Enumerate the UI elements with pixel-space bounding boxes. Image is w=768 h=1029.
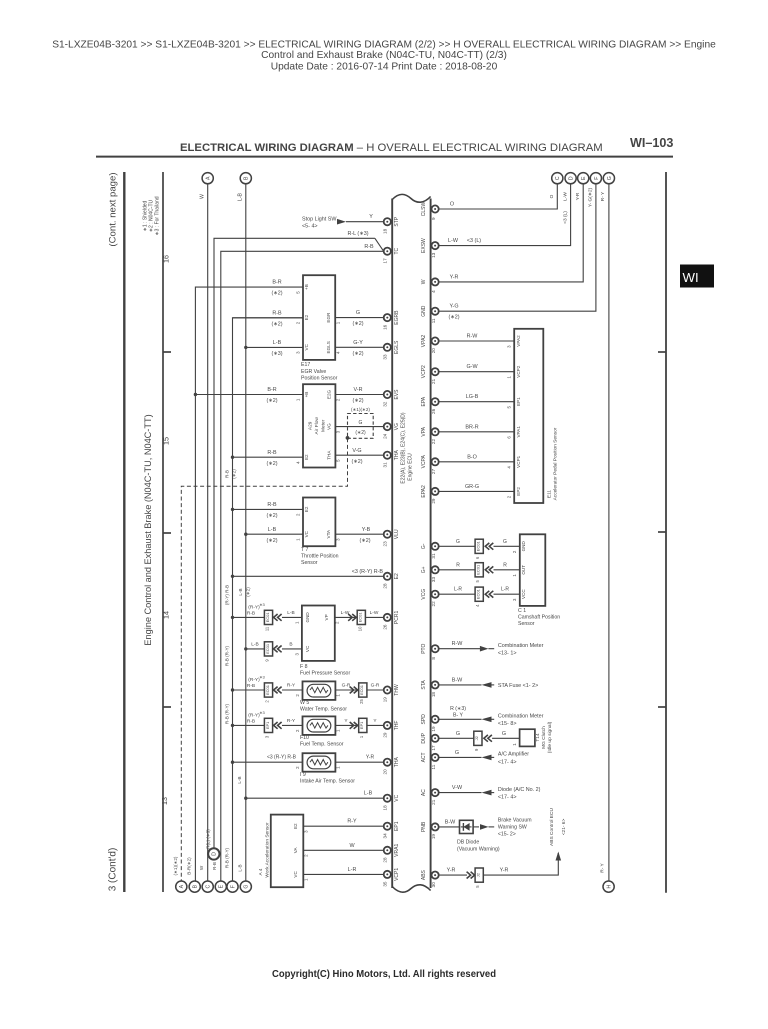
shield chevrons F10 left [274, 722, 282, 729]
section tick 15/14 [163, 532, 171, 534]
svg-text:R-B: R-B [272, 310, 282, 316]
ECU pin THW 19 (left) [383, 684, 400, 702]
svg-text:R-W: R-W [467, 334, 479, 340]
connector H bottom right [603, 881, 614, 892]
svg-text:(∗2): (∗2) [266, 461, 277, 467]
svg-text:20: 20 [431, 348, 436, 354]
svg-text:E2: E2 [304, 506, 309, 512]
svg-text:E17: E17 [301, 362, 310, 368]
svg-text:9: 9 [431, 217, 436, 220]
connector G bottom [240, 881, 251, 892]
svg-text:Sensor: Sensor [301, 560, 318, 566]
svg-text:(∗2): (∗2) [266, 538, 277, 544]
svg-text:EGR: EGR [326, 312, 331, 323]
svg-text:STP: STP [394, 216, 400, 226]
svg-text:Combination Meter: Combination Meter [498, 714, 544, 720]
wire W label bottom [199, 865, 204, 870]
wire R-B to F10 EP1 [231, 724, 265, 727]
wire B-R to A29 label [266, 387, 277, 404]
svg-text:G+: G+ [421, 566, 427, 573]
E11 pin VPA1 [506, 426, 521, 439]
connector C bottom [202, 881, 213, 892]
junction EC01 6 (C1) [475, 539, 483, 559]
svg-text:Control and Exhaust Brake (N04: Control and Exhaust Brake (N04C-TU, N04C… [261, 50, 507, 61]
svg-text:L-B: L-B [251, 641, 258, 647]
svg-text:R (∗3): R (∗3) [450, 706, 466, 712]
ECU pin THA 20 (left) [383, 757, 400, 775]
wire Y-R (W to E) [439, 184, 583, 282]
DB Diode box [460, 820, 474, 833]
svg-text:G: G [456, 539, 460, 545]
Combination Meter label 1 [498, 643, 544, 657]
svg-text:Throttle Position: Throttle Position [301, 554, 339, 560]
svg-text:Meter: Meter [321, 419, 327, 432]
svg-text:VCPA: VCPA [421, 455, 427, 469]
ECU pin G- 31 (right) [421, 543, 439, 559]
svg-text:S1-LXZE04B-3201 >> S1-LXZE04B-: S1-LXZE04B-3201 >> S1-LXZE04B-3201 >> EL… [52, 40, 716, 51]
svg-text:(∗2): (∗2) [448, 315, 459, 321]
wire B-O label [467, 454, 477, 460]
ECU pin VRA1 28 (left) [383, 844, 400, 863]
connector B [240, 173, 251, 184]
svg-text:VP: VP [324, 614, 329, 620]
svg-text:10: 10 [357, 626, 362, 631]
svg-text:13: 13 [431, 252, 436, 258]
svg-text:EPA2: EPA2 [421, 485, 427, 498]
svg-text:G: G [502, 731, 506, 737]
wire L-W label vert [562, 192, 568, 201]
copyright [272, 968, 496, 980]
svg-text:PNB: PNB [421, 821, 427, 832]
connector A bottom [176, 881, 187, 892]
svg-text:VPA1: VPA1 [516, 426, 521, 438]
ECU pin EXSW 13 (right) [421, 238, 439, 258]
wire L-R to C1 VCC [494, 593, 520, 595]
svg-text:E2: E2 [304, 454, 309, 460]
svg-text:WI: WI [683, 270, 699, 285]
svg-text:R-B: R-B [247, 719, 255, 725]
wire V-G label [351, 448, 362, 465]
ABS Control ECU label [549, 808, 567, 846]
section label 16 [162, 255, 171, 263]
svg-text:Fuel Temp. Sensor: Fuel Temp. Sensor [300, 742, 344, 748]
svg-text:BR-R: BR-R [465, 424, 478, 430]
junction EP1 1 (F10) [359, 718, 367, 738]
A4 pin VC [293, 871, 309, 881]
wire B-Y from SPD label [450, 706, 466, 718]
ECU pin TC 17 (left) [383, 247, 400, 263]
Brake Vacuum label [498, 818, 532, 838]
wire R-B label [364, 244, 374, 250]
svg-text:Camshaft Position: Camshaft Position [518, 615, 560, 621]
svg-text:3 (Cont'd): 3 (Cont'd) [108, 848, 119, 892]
svg-text:C: C [206, 884, 212, 888]
svg-text:30: 30 [431, 882, 436, 888]
svg-text:G-: G- [421, 543, 427, 549]
svg-text:L-B: L-B [237, 776, 242, 783]
wire R-B label bottom [212, 862, 217, 870]
svg-text:T14: T14 [535, 733, 541, 742]
shield box label [351, 407, 370, 412]
E11 pin VCP2 [506, 365, 521, 378]
svg-text:E2: E2 [304, 314, 309, 320]
wire L-B to VC [244, 797, 383, 800]
E17 pin +B [295, 284, 309, 294]
svg-text:B-O: B-O [467, 454, 477, 460]
svg-text:<3 (R-Y) R-B: <3 (R-Y) R-B [267, 755, 297, 761]
I9 Intake Air Temp Sensor label [300, 772, 355, 785]
wire R-Y to F10 label [287, 718, 296, 724]
connector D top right [565, 173, 576, 184]
wire R-W from PTO label [452, 641, 464, 647]
ECU pin THF 29 (left) [383, 721, 400, 738]
svg-text:VPA: VPA [421, 426, 427, 436]
junction EC01 2 (W5) [264, 683, 272, 703]
T7 pin E2 [295, 506, 309, 516]
A29 Air Flow Meter box [303, 384, 335, 467]
wire Y-R to ABS label [500, 868, 509, 874]
svg-text:VCP1: VCP1 [394, 868, 400, 881]
junction EC01 10 [357, 610, 365, 631]
wire R-Y to EP1 [303, 825, 383, 827]
svg-text:Accelerator Pedal Position Sen: Accelerator Pedal Position Sensor [553, 427, 559, 500]
wire O label [450, 202, 454, 208]
svg-text:Y-R: Y-R [575, 192, 581, 200]
connector E bottom [215, 881, 226, 892]
svg-text:EC01: EC01 [265, 643, 270, 654]
E17 EGR Valve Position Sensor box [303, 275, 335, 360]
arrow to Brake Vacuum SW [480, 824, 494, 830]
wire BR-R to E11 VPA1 [439, 431, 514, 433]
wire Y-R to ABS Control ECU [483, 853, 558, 875]
T14 MG Clutch pin [512, 743, 517, 746]
A29 pin +B [295, 392, 309, 402]
wire L-R to VCP1 [303, 873, 383, 875]
svg-text:A: A [179, 884, 185, 888]
svg-text:G-W: G-W [466, 364, 478, 370]
svg-text:G: G [607, 176, 613, 180]
svg-text:(Vacuum Warning): (Vacuum Warning) [457, 847, 500, 853]
svg-text:E22(A), E23(B), E24(C), E25(D): E22(A), E23(B), E24(C), E25(D) [401, 412, 407, 483]
svg-text:R-Y: R-Y [347, 819, 357, 825]
arrow from AC Amplifier [482, 755, 492, 761]
wire L-W from F8 VP [335, 616, 357, 618]
svg-text:VPA2: VPA2 [516, 335, 521, 347]
wire Y to STP [346, 221, 383, 223]
svg-text:Stop Light SW: Stop Light SW [302, 217, 337, 223]
wire Y from F10 [335, 724, 358, 726]
T7 label [301, 547, 339, 566]
ECU pin EGLS 33 (left) [383, 340, 400, 360]
E17 label [301, 362, 338, 381]
wire R-Y to W5 label [287, 683, 296, 689]
svg-text:27: 27 [431, 469, 436, 475]
shield chevrons C1 VCC [485, 591, 493, 598]
svg-text:Sensor: Sensor [518, 621, 535, 627]
svg-text:<3 (L): <3 (L) [467, 238, 481, 244]
svg-text:<3 (L): <3 (L) [562, 211, 568, 224]
svg-text:LG-B: LG-B [466, 394, 479, 400]
Engine ECU bottom wavy edge [392, 885, 430, 892]
svg-text:A: A [206, 176, 212, 180]
svg-text:R-B: R-B [364, 244, 374, 250]
wire L-W to PCR1 label [370, 610, 379, 616]
wire G label in shield [355, 420, 366, 436]
ECU pin PCR1 26 (left) [383, 611, 400, 630]
C1 pin OUT [512, 565, 526, 577]
svg-text:R-B: R-B [247, 611, 255, 617]
svg-text:B-R: B-R [267, 387, 276, 393]
wire R-B to T7 label [266, 502, 277, 519]
svg-text:EXSW: EXSW [421, 238, 427, 253]
svg-text:R-W: R-W [452, 641, 464, 647]
svg-text:EGLS: EGLS [326, 341, 331, 353]
shield chevrons F8 GND [274, 614, 282, 621]
wire R-L label [347, 231, 368, 237]
note *3 For Thailand [155, 196, 161, 235]
wire R-Y to W5 [282, 689, 303, 691]
E11 pin VPA2 [506, 335, 521, 348]
svg-text:Engine ECU: Engine ECU [408, 453, 414, 481]
svg-text:C 1: C 1 [518, 608, 526, 614]
T14 MG Clutch label [535, 721, 553, 753]
F8 pin VP [324, 614, 340, 624]
wire G from ACT label [455, 750, 459, 756]
svg-text:(Cont. next page): (Cont. next page) [108, 172, 119, 246]
wire R-L diagonal to TC [375, 238, 384, 251]
wire G label left [456, 539, 460, 545]
svg-text:EC01: EC01 [476, 541, 481, 552]
svg-text:F: F [594, 177, 600, 180]
wire R-L rail [214, 238, 375, 848]
wire Y-G label vert [588, 187, 594, 207]
svg-text:∗3: ∗3 [259, 710, 265, 715]
svg-text:Fuel Pressure Sensor: Fuel Pressure Sensor [300, 671, 350, 677]
W5 Water Temp Sensor label [300, 700, 347, 713]
wire B-W from STA [439, 684, 494, 686]
svg-text:<17- 4>: <17- 4> [498, 795, 517, 801]
svg-text:R-Y: R-Y [287, 683, 296, 689]
svg-text:V-R: V-R [354, 387, 363, 393]
shield chevrons F8 VP [348, 614, 356, 621]
arrow to Combination Meter [480, 646, 489, 652]
wire B-R to E17 label [271, 280, 282, 297]
svg-text:EP2: EP2 [516, 487, 521, 496]
svg-text:B: B [244, 176, 250, 180]
A29 pin VG [327, 423, 341, 433]
DB Diode label [457, 840, 500, 853]
wire R-Y to F10 [282, 724, 303, 726]
wire R-B rail [221, 251, 384, 881]
svg-text:CLSW: CLSW [421, 202, 427, 217]
svg-text:V-W: V-W [452, 785, 463, 791]
svg-text:+B: +B [304, 284, 309, 290]
wire G-R to THW label [371, 683, 380, 689]
right rail tick 2 [658, 531, 666, 533]
svg-text:<15- 8>: <15- 8> [498, 721, 517, 727]
svg-text:+B: +B [304, 392, 309, 398]
C1 Camshaft Position Sensor box [520, 534, 546, 606]
svg-text:VC: VC [304, 343, 309, 350]
svg-text:ABS Control ECU: ABS Control ECU [549, 808, 555, 846]
svg-text:O: O [549, 194, 555, 198]
wire G label right [503, 539, 507, 545]
svg-text:18: 18 [431, 692, 436, 698]
svg-text:<13- 1>: <13- 1> [498, 651, 517, 657]
shield chevrons C1 GND [485, 543, 493, 550]
A29 pin E2 [295, 454, 309, 464]
page title [180, 142, 603, 154]
shield chevrons C1 OUT [485, 566, 493, 573]
ECU pin VCP1 35 (left) [383, 868, 400, 887]
wire L-W label [448, 238, 481, 244]
ECU pin EVS 32 (left) [383, 389, 400, 407]
wire G EGR to EGRB [335, 317, 383, 319]
wire G to MG Clutch [492, 737, 519, 739]
svg-text:THA: THA [394, 757, 400, 768]
arrow from Stop Light SW [337, 219, 346, 225]
svg-text:22: 22 [431, 601, 436, 607]
connector E top right [578, 173, 589, 184]
Stop Light SW label [302, 217, 337, 230]
wire BR-R label [465, 424, 478, 430]
rail label R-B 3 [224, 645, 229, 666]
wire Y-R label vert [575, 192, 581, 200]
wire G-R from W5 label [342, 683, 351, 689]
svg-text:A29: A29 [308, 421, 314, 430]
T7 pin VC [295, 530, 309, 540]
svg-text:VC: VC [305, 645, 310, 652]
wire L-R label left [454, 587, 462, 593]
svg-text:<5- 4>: <5- 4> [302, 224, 318, 230]
svg-text:R-Y: R-Y [287, 718, 296, 724]
svg-text:PCR1: PCR1 [394, 611, 400, 625]
svg-text:B: B [289, 641, 292, 647]
svg-text:VCP2: VCP2 [516, 365, 521, 377]
ECU pin SPD 19 (right) [421, 714, 439, 732]
ECU pin VLU 23 (left) [383, 529, 400, 547]
E17 pin EGLS [326, 341, 340, 354]
wire Y-G label [448, 304, 459, 321]
ECU pin GND 11 (right) [421, 305, 439, 323]
svg-text:(∗2): (∗2) [351, 459, 362, 465]
svg-text:VCP1: VCP1 [516, 455, 521, 467]
svg-text:R-B: R-B [224, 470, 229, 478]
svg-text:AC: AC [421, 789, 427, 796]
wire B-R rail [195, 287, 303, 881]
svg-text:L-R: L-R [501, 587, 509, 593]
wire R to C1 OUT [494, 569, 520, 571]
connector G top right [603, 173, 614, 184]
svg-text:<15- 2>: <15- 2> [498, 832, 516, 838]
wire G to C1 GND [494, 545, 520, 547]
svg-text:EC01: EC01 [476, 564, 481, 575]
wire R-W to E11 VPA2 [439, 340, 514, 342]
ECU pin VC 18 (left) [383, 794, 400, 810]
svg-text:ABS: ABS [421, 869, 427, 880]
rail label R-B 2 [224, 585, 229, 605]
wire L-B (B to G) [245, 184, 247, 882]
svg-text:F 8: F 8 [300, 664, 308, 670]
wire W to VRA1 [303, 849, 383, 851]
svg-text:Diode (A/C No. 2): Diode (A/C No. 2) [498, 787, 541, 793]
svg-text:GND: GND [521, 541, 526, 552]
wire R-B to I9 [231, 761, 303, 764]
shield chevrons F10 right [350, 722, 358, 729]
svg-text:G-R: G-R [371, 683, 380, 689]
svg-text:ACT: ACT [421, 752, 427, 762]
wire W (A to C) [207, 184, 209, 882]
section tick 16/15 [163, 351, 171, 353]
svg-text:G: G [244, 885, 250, 889]
E17 pin E2 [295, 314, 309, 324]
A29 pin E2G [327, 389, 341, 401]
svg-text:VC: VC [304, 530, 309, 537]
F10 Fuel Temp Sensor label [300, 735, 344, 748]
svg-text:EP1: EP1 [359, 721, 364, 729]
A29 pin THA [327, 450, 341, 462]
connector B bottom [189, 881, 200, 892]
svg-text:B-R(∗2): B-R(∗2) [187, 857, 192, 875]
svg-text:VG: VG [394, 423, 400, 430]
wire R-W from PTO [439, 648, 494, 650]
wire L-B to E17 label [271, 340, 282, 357]
wire Y-G (GND to F) [439, 184, 596, 312]
svg-text:G: G [359, 420, 363, 426]
svg-text:GND: GND [305, 612, 310, 623]
wire G-R to THW [367, 689, 384, 691]
svg-text:26: 26 [431, 408, 436, 414]
svg-text:<3 (R-Y) R-B: <3 (R-Y) R-B [352, 569, 384, 575]
wire G-W label [466, 364, 478, 370]
wire Y-R to THA label [366, 755, 375, 761]
svg-text:R- Y: R- Y [600, 191, 606, 201]
section label 15 [162, 437, 171, 445]
svg-text:ELECTRICAL WIRING DIAGRAM –: ELECTRICAL WIRING DIAGRAM – H OVERALL EL… [180, 142, 603, 154]
svg-text:26: 26 [383, 624, 388, 630]
wire L-B to T7 [244, 533, 303, 536]
svg-text:13: 13 [160, 797, 169, 805]
svg-text:Y-R: Y-R [450, 274, 459, 280]
section label 13 [160, 797, 169, 805]
svg-text:11: 11 [265, 626, 270, 631]
wire Y-R label [450, 274, 459, 280]
wire LG-B to E11 EP1 [439, 401, 514, 403]
wire Y label [369, 214, 373, 220]
A4 pin E2 [293, 823, 309, 833]
svg-text:MG Clutch: MG Clutch [541, 726, 547, 749]
wire R-B to W5 label [247, 675, 266, 690]
svg-text:∗3 : For Thailand: ∗3 : For Thailand [155, 196, 161, 235]
svg-text:O: O [450, 202, 454, 208]
svg-text:EGRB: EGRB [394, 310, 400, 325]
svg-text:A 4: A 4 [258, 868, 264, 875]
svg-text:F10: F10 [300, 735, 309, 741]
svg-text:E2: E2 [394, 573, 400, 579]
svg-text:B-W: B-W [452, 677, 463, 683]
wire R-Y (G to H) [608, 184, 610, 882]
wire Y-R from ABS [439, 874, 467, 876]
note *2 N04C-TU [149, 199, 155, 232]
F8 pin VC [294, 645, 310, 655]
svg-text:D: D [569, 176, 575, 180]
rail label L-B 2 [237, 776, 242, 783]
note *1 Shielded [143, 200, 149, 231]
svg-text:DUP: DUP [421, 732, 427, 743]
svg-text:33: 33 [431, 577, 436, 583]
ECU pin VPA 22 (right) [421, 426, 439, 444]
shield drain label [173, 856, 178, 875]
